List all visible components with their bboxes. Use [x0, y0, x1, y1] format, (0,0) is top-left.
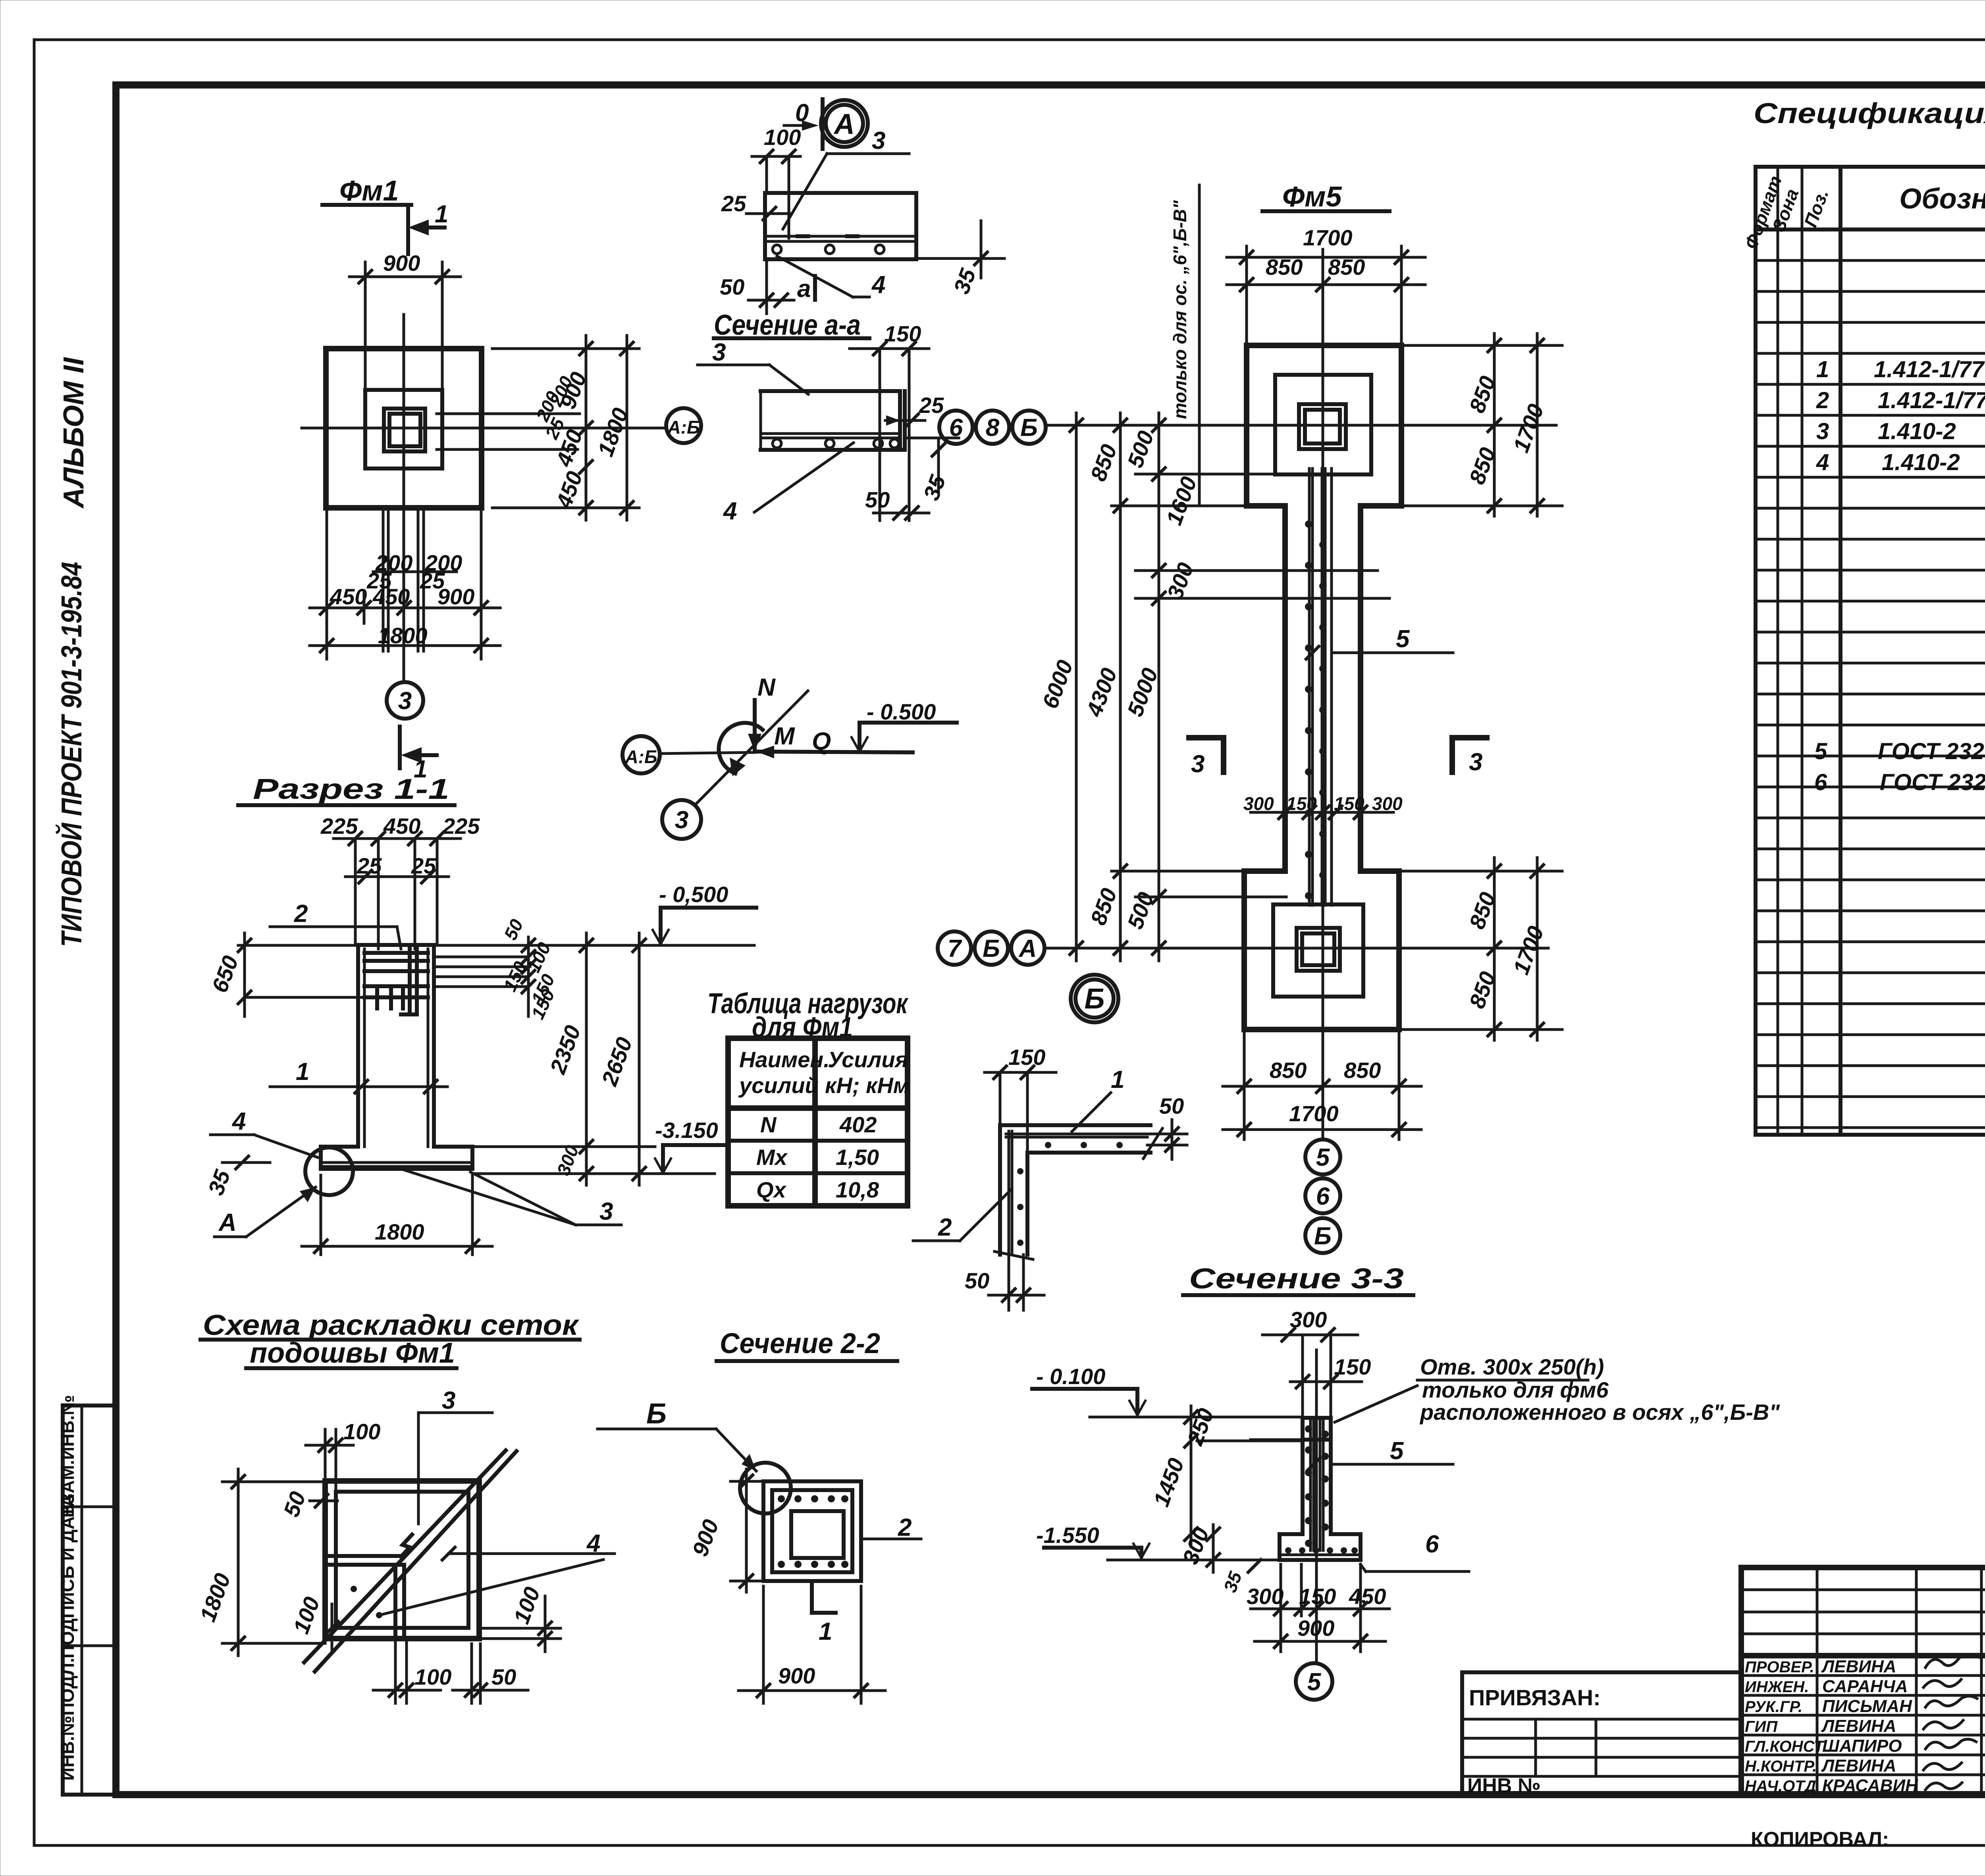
- svg-text:35: 35: [1220, 1568, 1246, 1595]
- svg-text:ПИСЬМАН: ПИСЬМАН: [1822, 1697, 1912, 1716]
- svg-text:ГОСТ 23279-78: ГОСТ 23279-78: [1878, 738, 1985, 764]
- svg-text:А: А: [833, 108, 855, 140]
- svg-text:1.412-1/77 вып.3: 1.412-1/77 вып.3: [1878, 388, 1985, 413]
- svg-text:300: 300: [1372, 793, 1403, 814]
- svg-text:5: 5: [1814, 738, 1827, 764]
- svg-text:-1.550: -1.550: [1036, 1523, 1099, 1548]
- svg-text:усилий: усилий: [738, 1073, 819, 1098]
- dim 1800 below: [320, 1175, 322, 1255]
- svg-text:1450: 1450: [1149, 1455, 1189, 1510]
- svg-text:ЛЕВИНА: ЛЕВИНА: [1821, 1657, 1896, 1676]
- svg-text:САРАНЧА: САРАНЧА: [1822, 1677, 1908, 1696]
- svg-text:3: 3: [675, 806, 688, 834]
- svg-text:3: 3: [1469, 748, 1482, 776]
- svg-text:6: 6: [1814, 769, 1827, 795]
- leader 5: [1331, 1463, 1453, 1466]
- right-side dim chain: [585, 335, 588, 520]
- 300-offset crossing lines: [1135, 569, 1378, 572]
- svg-text:6000: 6000: [1037, 657, 1078, 712]
- left bottom stamp column (Взам.инв / Подпись и дата / Инв.подл): [57, 1395, 116, 1795]
- bottom dims 850 850 / 1700: [1243, 1030, 1246, 1139]
- diagonal fold lines: [304, 1450, 506, 1662]
- svg-text:ЛЕВИНА: ЛЕВИНА: [1821, 1756, 1896, 1776]
- svg-text:3: 3: [599, 1198, 613, 1225]
- svg-text:300: 300: [1243, 793, 1274, 814]
- svg-text:Б: Б: [1020, 414, 1038, 442]
- svg-text:1.412-1/77 вып.3: 1.412-1/77 вып.3: [1874, 357, 1985, 382]
- svg-text:Обозначение: Обозначение: [1899, 183, 1985, 215]
- svg-text:900: 900: [687, 1516, 723, 1560]
- svg-text:2: 2: [294, 900, 308, 927]
- svg-text:подошвы Фм1: подошвы Фм1: [250, 1337, 455, 1369]
- dim 2650: [638, 933, 641, 1185]
- svg-text:1700: 1700: [1508, 923, 1549, 978]
- svg-text:3: 3: [712, 339, 726, 366]
- svg-text:450: 450: [330, 584, 367, 609]
- svg-text:РУК.ГР.: РУК.ГР.: [1745, 1698, 1802, 1716]
- svg-text:900: 900: [383, 251, 420, 276]
- svg-text:6: 6: [1425, 1531, 1439, 1558]
- centrelines: [403, 314, 405, 659]
- svg-text:1800: 1800: [195, 1570, 235, 1625]
- svg-text:1: 1: [1816, 357, 1829, 382]
- dim 900 below: [762, 1586, 765, 1703]
- svg-text:Схема раскладки сеток: Схема раскладки сеток: [203, 1309, 580, 1341]
- svg-text:Б: Б: [1314, 1222, 1332, 1250]
- grid circle 5: [1296, 1663, 1332, 1700]
- svg-text:10,8: 10,8: [836, 1177, 879, 1202]
- svg-text:3: 3: [442, 1387, 455, 1414]
- bottom level extension: [474, 1172, 715, 1175]
- svg-text:50: 50: [491, 1664, 516, 1689]
- svg-text:ГЛ.КОНСТ: ГЛ.КОНСТ: [1745, 1738, 1825, 1755]
- svg-text:5: 5: [1316, 1144, 1330, 1171]
- left dims 250 1450 300 35: [1190, 1406, 1193, 1546]
- upper pad inner square 850: [1275, 375, 1371, 474]
- wall mesh: [1309, 1418, 1312, 1550]
- mesh edge leader lines right: [437, 413, 580, 415]
- svg-text:2: 2: [938, 1214, 952, 1241]
- svg-text:450: 450: [383, 814, 420, 839]
- svg-text:- 0.100: - 0.100: [1036, 1364, 1105, 1389]
- mesh inner square (offset mesh): [336, 1492, 468, 1628]
- svg-text:ПРОВЕР.: ПРОВЕР.: [1745, 1658, 1814, 1676]
- svg-text:100: 100: [414, 1664, 451, 1689]
- svg-text:100: 100: [343, 1419, 380, 1444]
- svg-text:6: 6: [1316, 1183, 1330, 1210]
- upper pad horizontal centreline: [1046, 424, 1556, 427]
- svg-text:ГИП: ГИП: [1745, 1718, 1778, 1735]
- grid circles 5 6 Б below: [1305, 1139, 1340, 1174]
- svg-text:25: 25: [919, 393, 944, 418]
- svg-text:Поз.: Поз.: [1800, 187, 1833, 230]
- lower column stub: [1297, 928, 1340, 971]
- svg-text:1800: 1800: [375, 1219, 424, 1244]
- axis circle А:Б right of plan: [666, 408, 701, 443]
- svg-text:100: 100: [764, 125, 801, 150]
- svg-text:300: 300: [1247, 1584, 1284, 1609]
- footing: [1280, 1532, 1303, 1536]
- svg-text:НАЧ.ОТД: НАЧ.ОТД: [1745, 1778, 1816, 1795]
- svg-text:M: M: [774, 723, 795, 750]
- svg-text:35: 35: [203, 1166, 235, 1198]
- svg-text:3: 3: [1816, 418, 1829, 444]
- detail circle Б on corner: [740, 1463, 791, 1514]
- axis circles 6 8 Б: [939, 411, 973, 444]
- svg-text:850: 850: [1328, 255, 1365, 280]
- svg-text:ГОСТ 23279-78: ГОСТ 23279-78: [1880, 769, 1985, 795]
- svg-text:только для фм6: только для фм6: [1422, 1377, 1609, 1402]
- svg-text:3: 3: [872, 127, 885, 154]
- svg-text:ЛЕВИНА: ЛЕВИНА: [1821, 1716, 1896, 1736]
- dim 650 left: [243, 933, 246, 1016]
- svg-text:А: А: [1018, 935, 1037, 962]
- svg-text:850: 850: [1344, 1058, 1381, 1083]
- wall section: [1301, 1418, 1305, 1534]
- svg-text:4300: 4300: [1081, 665, 1122, 720]
- section mark 1 (top): [408, 220, 429, 235]
- svg-text:5: 5: [1396, 625, 1410, 653]
- rebar projection lines below plan: [382, 508, 385, 651]
- svg-text:850: 850: [1270, 1058, 1307, 1083]
- svg-text:500: 500: [1122, 889, 1158, 932]
- mesh in column top: [364, 951, 428, 955]
- svg-text:ТИПОВОЙ ПРОЕКТ 901-3-195.84: ТИПОВОЙ ПРОЕКТ 901-3-195.84: [55, 562, 88, 947]
- svg-text:4: 4: [723, 497, 737, 525]
- svg-text:ПРИВЯЗАН:: ПРИВЯЗАН:: [1469, 1685, 1601, 1710]
- svg-text:1700: 1700: [1303, 225, 1353, 250]
- bottom edge extension + 35 dim: [916, 257, 1004, 260]
- svg-text:Усилия: Усилия: [828, 1047, 908, 1072]
- rebar dots: [778, 1495, 848, 1568]
- top level line: [238, 944, 754, 947]
- svg-text:2650: 2650: [596, 1034, 637, 1089]
- person rows: [1741, 1674, 1985, 1677]
- dim 50 bottom: [470, 1644, 473, 1703]
- svg-text:500: 500: [1122, 428, 1158, 471]
- svg-text:Q: Q: [812, 728, 831, 755]
- svg-text:225: 225: [442, 814, 480, 839]
- right side dims upper pad: [1401, 344, 1562, 347]
- inner mesh lines: [1006, 1133, 1147, 1136]
- mesh leader 5: [1334, 652, 1453, 654]
- svg-text:Б: Б: [983, 935, 1000, 962]
- svg-text:150: 150: [1008, 1045, 1045, 1070]
- svg-text:900: 900: [437, 584, 474, 609]
- grid circle 3 below: [403, 659, 405, 682]
- dim 100 bottom: [394, 1639, 397, 1703]
- svg-text:5: 5: [1390, 1437, 1404, 1465]
- svg-text:100: 100: [509, 1584, 545, 1627]
- svg-text:Б: Б: [1085, 983, 1105, 1015]
- svg-text:4: 4: [1816, 449, 1829, 475]
- svg-text:ИНВ.№ПОДЛ.: ИНВ.№ПОДЛ.: [57, 1658, 78, 1781]
- right side dims lower pad: [1399, 870, 1562, 873]
- column section square: [763, 1481, 861, 1581]
- svg-text:1: 1: [296, 1058, 309, 1085]
- middle square 900: [365, 390, 442, 469]
- svg-text:650: 650: [207, 952, 243, 996]
- leader 6: [1361, 1564, 1366, 1571]
- leader 3 bottom: [397, 1168, 576, 1225]
- section marks 3-3 on strip: [1189, 738, 1224, 772]
- section mark 1 above: [398, 727, 402, 768]
- svg-text:Спецификация к монолитным ф: Спецификация к монолитным фундаментам: [1754, 98, 1985, 129]
- svg-text:35: 35: [948, 265, 981, 297]
- svg-text:АЛЬБОМ II: АЛЬБОМ II: [58, 357, 90, 509]
- svg-text:Разрез 1-1: Разрез 1-1: [253, 773, 449, 805]
- svg-text:Фм5: Фм5: [1282, 181, 1342, 213]
- svg-text:2350: 2350: [545, 1022, 585, 1078]
- svg-text:ИНЖЕН.: ИНЖЕН.: [1745, 1678, 1809, 1696]
- mesh dots: [1305, 521, 1326, 899]
- top small rows left part: [1741, 1589, 1985, 1591]
- svg-text:1700: 1700: [1508, 401, 1549, 456]
- svg-text:850: 850: [1085, 441, 1122, 484]
- lower pad horizontal centreline: [1046, 947, 1548, 950]
- dim 35 right: [905, 437, 959, 440]
- svg-text:7: 7: [948, 935, 962, 962]
- svg-text:а: а: [797, 275, 811, 303]
- svg-text:только для ос. „6",Б-В": только для ос. „6",Б-В": [1170, 200, 1190, 419]
- svg-text:расположенного в осях „6",Б-В": расположенного в осях „6",Б-В": [1419, 1400, 1780, 1425]
- svg-text:А:Б: А:Б: [624, 746, 657, 767]
- svg-text:900: 900: [778, 1663, 815, 1688]
- svg-text:1: 1: [1111, 1066, 1124, 1093]
- svg-text:450: 450: [1349, 1584, 1386, 1609]
- svg-text:Мх: Мх: [756, 1145, 788, 1170]
- chain 500+1600+300... 5000: [1158, 413, 1160, 961]
- svg-text:50: 50: [500, 916, 527, 943]
- svg-text:Сечение 2-2: Сечение 2-2: [720, 1328, 880, 1359]
- svg-text:ШАПИРО: ШАПИРО: [1822, 1736, 1902, 1756]
- svg-text:900: 900: [1297, 1616, 1334, 1641]
- slab detail (plan corner of footing): [765, 193, 916, 259]
- svg-text:Сечение 3-3: Сечение 3-3: [1189, 1263, 1404, 1295]
- svg-text:50: 50: [1159, 1093, 1184, 1118]
- svg-text:50: 50: [865, 487, 890, 512]
- svg-text:Наимен.: Наимен.: [739, 1047, 830, 1072]
- right spacing lines 50 100 150 150: [434, 956, 528, 958]
- centreline: [1315, 1350, 1318, 1664]
- vertical centreline: [1322, 249, 1324, 1139]
- svg-text:Фм1: Фм1: [339, 175, 399, 207]
- svg-text:КРАСАВИН: КРАСАВИН: [1822, 1776, 1918, 1795]
- footing outer square 1800: [326, 349, 482, 508]
- svg-text:1700: 1700: [1289, 1101, 1339, 1126]
- strip mesh lines: [1308, 469, 1311, 905]
- svg-text:850: 850: [1266, 255, 1303, 280]
- svg-text:N: N: [760, 1112, 777, 1137]
- svg-text:1: 1: [435, 201, 448, 228]
- svg-text:5: 5: [1307, 1668, 1322, 1696]
- svg-text:35: 35: [918, 471, 950, 503]
- svg-text:1,50: 1,50: [836, 1145, 879, 1170]
- dim 1800 left: [237, 1469, 240, 1656]
- svg-text:150: 150: [1334, 1354, 1371, 1379]
- mid horizontal mesh lines: [325, 1554, 401, 1558]
- svg-text:- 0,500: - 0,500: [659, 882, 728, 907]
- svg-text:N: N: [757, 674, 776, 701]
- svg-text:2: 2: [1816, 388, 1829, 413]
- svg-text:Qх: Qх: [756, 1177, 787, 1202]
- svg-text:1: 1: [819, 1618, 832, 1645]
- svg-text:300: 300: [1162, 559, 1198, 603]
- chain 6000: [1075, 413, 1078, 961]
- svg-text:- 0.500: - 0.500: [867, 699, 936, 724]
- detail circle A: [821, 100, 868, 147]
- svg-text:25: 25: [721, 191, 746, 216]
- svg-text:50: 50: [965, 1268, 989, 1293]
- dim 400 right: [479, 1627, 561, 1630]
- svg-text:450: 450: [551, 468, 588, 512]
- detail circle Б below: [1071, 975, 1118, 1022]
- svg-text:8: 8: [986, 414, 1000, 442]
- svg-text:Б: Б: [646, 1398, 667, 1430]
- axis circle А:Б: [622, 736, 660, 773]
- upper column stub: [1299, 404, 1346, 449]
- mid vertical mesh lines: [393, 1565, 397, 1639]
- footing: [321, 1145, 358, 1149]
- mesh dots: [351, 1586, 357, 1592]
- svg-text:50: 50: [720, 274, 744, 299]
- svg-text:1.410-2: 1.410-2: [1878, 418, 1956, 444]
- svg-text:Н.КОНТР.: Н.КОНТР.: [1745, 1758, 1817, 1775]
- bottom dims 300 150 450 / 900: [1280, 1564, 1282, 1652]
- force Q arrow: [755, 752, 913, 752]
- svg-text:ИНВ №: ИНВ №: [1467, 1774, 1541, 1797]
- mesh outer square: [325, 1481, 479, 1639]
- svg-text:-3.150: -3.150: [655, 1118, 718, 1143]
- svg-text:50: 50: [278, 1488, 310, 1520]
- signatures squiggles: [1923, 1654, 1979, 1790]
- svg-text:3: 3: [1191, 750, 1204, 778]
- dim 2350 + 300: [585, 933, 588, 1185]
- chain 4300 / 850+850: [1119, 413, 1122, 961]
- corner walls: [1000, 1125, 1151, 1255]
- upper pad outline: [1244, 345, 1401, 1030]
- svg-text:КОПИРОВАЛ:: КОПИРОВАЛ:: [1751, 1828, 1889, 1851]
- svg-text:А:Б: А:Б: [667, 417, 700, 438]
- column outline: [356, 945, 360, 1147]
- svg-text:4: 4: [871, 271, 885, 299]
- section line 3 diagonal: [696, 691, 808, 804]
- svg-text:А: А: [218, 1209, 237, 1236]
- svg-text:850: 850: [1085, 885, 1122, 928]
- svg-text:2: 2: [898, 1514, 912, 1541]
- svg-text:100: 100: [288, 1594, 324, 1637]
- detail circle A on footing corner: [305, 1147, 353, 1195]
- column stub double square: [384, 409, 425, 451]
- svg-text:450: 450: [372, 584, 410, 609]
- svg-text:225: 225: [320, 814, 358, 839]
- svg-text:4: 4: [231, 1108, 246, 1135]
- svg-text:402: 402: [839, 1112, 877, 1137]
- slab section а-а: [761, 389, 900, 393]
- moment M arc: [719, 723, 763, 773]
- svg-text:1600: 1600: [1161, 473, 1202, 528]
- svg-text:5000: 5000: [1122, 665, 1163, 720]
- svg-text:кН; кНм: кН; кНм: [825, 1073, 910, 1098]
- svg-text:Отв. 300x 250(h): Отв. 300x 250(h): [1420, 1354, 1604, 1379]
- svg-text:3: 3: [398, 687, 412, 715]
- section mark 1 below: [810, 1584, 814, 1613]
- svg-text:ПОДПИСЬ И ДАТА: ПОДПИСЬ И ДАТА: [57, 1494, 78, 1658]
- dim 900 left: [745, 1469, 748, 1592]
- svg-text:1.410-2: 1.410-2: [1882, 449, 1960, 475]
- lower pad inner square: [1273, 904, 1363, 997]
- left verticals: [1816, 1568, 1819, 1795]
